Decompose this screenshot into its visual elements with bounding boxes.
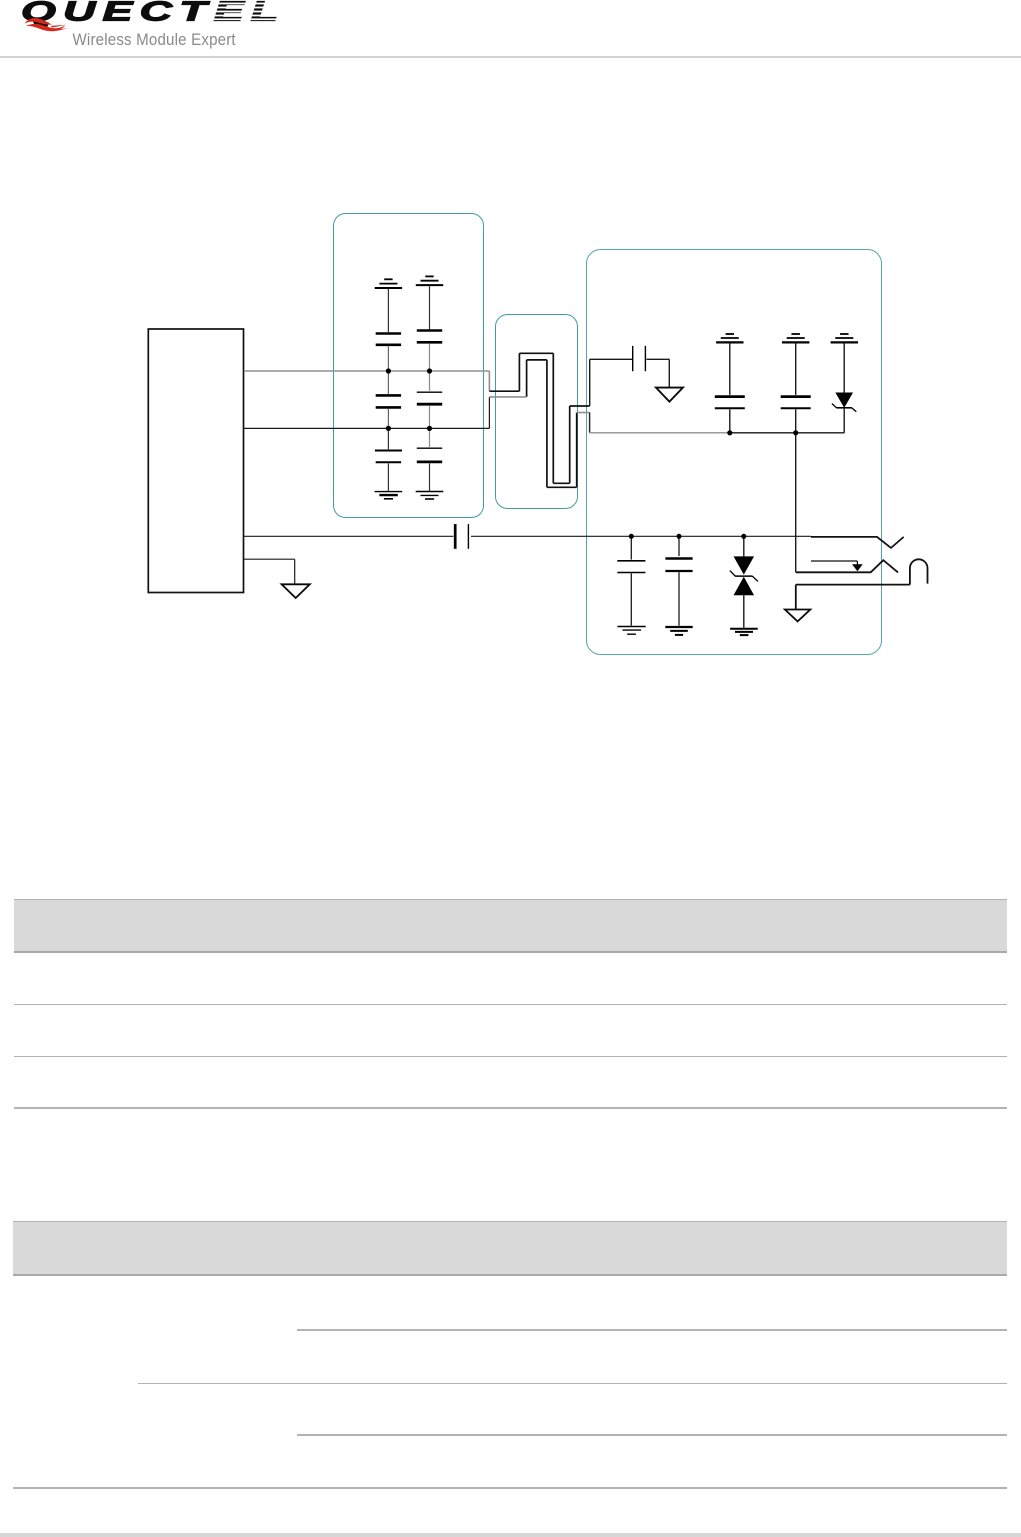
ground (below C11)	[617, 627, 645, 635]
wire RF1 (module pin to matching network, gray)	[244, 371, 490, 391]
wire AUDIO (module pin to jack tip contact)	[244, 535, 811, 537]
ground (inverted, above C1)	[375, 279, 402, 288]
table 2 row rule 3 (partial)	[297, 1434, 1007, 1435]
table 1 header bottom rule	[14, 951, 1007, 953]
capacitor C3	[375, 428, 402, 491]
table 2 header bottom rule	[13, 1274, 1006, 1276]
wire C8 to ground	[646, 359, 669, 387]
ground (module, signal triangle)	[282, 584, 310, 598]
ground (inverted, above C9)	[716, 334, 743, 342]
ground (below D2)	[730, 629, 758, 635]
table 2 row rule 2	[138, 1383, 1007, 1384]
antenna interface box (teal)	[587, 250, 882, 655]
footer bar	[0, 1533, 1021, 1537]
table 2 header band	[13, 1221, 1006, 1274]
microstrip meander line MS1	[489, 353, 589, 487]
wire node line left (gray)	[590, 432, 730, 434]
capacitor C6	[417, 428, 442, 491]
capacitor C11	[617, 536, 645, 625]
ground (below C6)	[416, 492, 444, 500]
table 1 header band	[14, 899, 1007, 951]
table 1 row rule 3	[14, 1107, 1007, 1108]
Quectel logo	[0, 0, 300, 52]
module U1 block	[148, 329, 243, 593]
capacitor C10	[781, 344, 811, 433]
ground (inverted, above C10)	[782, 334, 809, 342]
ground (inverted, above C4)	[416, 276, 443, 285]
table 1 row rule 2	[14, 1056, 1007, 1057]
wire meander to ANT node line	[589, 413, 591, 433]
table 2 row rule 1 (partial)	[297, 1329, 1007, 1330]
jack J1 tip contact (switch)	[811, 537, 904, 548]
capacitor C8 (series to ground)	[633, 346, 646, 371]
ground (jack sleeve, signal triangle)	[785, 610, 810, 622]
ground (below C12)	[665, 627, 692, 635]
capacitor C4	[417, 286, 442, 369]
jack sleeve line and plug tip arc	[796, 559, 928, 609]
jack insertion-detect arrow	[811, 561, 863, 571]
capacitor C9	[715, 344, 745, 433]
ground (inverted, above D1)	[831, 334, 858, 342]
wire C10 node down to jack ring contact	[795, 433, 797, 573]
microstrip exit lower edge (gray)	[577, 412, 590, 414]
capacitor C12	[665, 536, 692, 625]
capacitor C5	[417, 371, 442, 428]
ground (signal triangle, right of C8)	[656, 388, 683, 402]
wire RF2 (module pin to matching network)	[244, 397, 490, 429]
matching network box (teal)	[334, 214, 484, 518]
ground (below C3)	[375, 492, 403, 499]
TVS diode D2 (bidirectional ESD)	[730, 536, 758, 628]
microstrip entry lower edge (gray)	[489, 396, 526, 398]
capacitor C2	[376, 371, 401, 428]
header rule	[0, 56, 1021, 58]
capacitor C7 (series, on audio line)	[455, 524, 468, 549]
jack J1 ring contact (switch)	[796, 560, 898, 572]
wire node line right	[730, 432, 845, 434]
table 2 bottom rule	[13, 1487, 1006, 1488]
wire meander to C8 node	[590, 359, 633, 406]
table 1 row rule 1	[14, 1004, 1007, 1005]
junction dots	[386, 368, 799, 538]
capacitor C1	[376, 289, 401, 369]
microstrip line box (teal)	[496, 315, 578, 509]
wire module ground stub	[244, 559, 295, 584]
TVS diode D1 (zener)	[832, 344, 856, 433]
